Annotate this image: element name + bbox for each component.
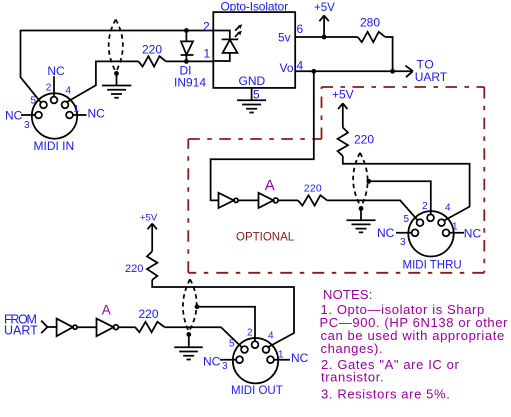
- svg-text:+5V: +5V: [314, 2, 335, 14]
- svg-text:220: 220: [139, 307, 159, 321]
- svg-text:5: 5: [253, 88, 260, 102]
- svg-text:NC: NC: [291, 351, 309, 365]
- svg-text:3. Resistors are 5%.: 3. Resistors are 5%.: [321, 386, 450, 401]
- svg-text:Opto-Isolator: Opto-Isolator: [221, 0, 289, 14]
- svg-text:5v: 5v: [278, 31, 291, 45]
- svg-text:5: 5: [229, 339, 235, 350]
- svg-text:2: 2: [46, 82, 52, 93]
- svg-text:OPTIONAL: OPTIONAL: [236, 232, 295, 244]
- svg-text:1: 1: [204, 47, 211, 61]
- svg-text:280: 280: [360, 16, 380, 30]
- svg-text:changes).: changes).: [321, 341, 384, 356]
- svg-text:Vo: Vo: [280, 61, 294, 75]
- svg-text:3: 3: [222, 361, 228, 372]
- svg-text:NC: NC: [203, 355, 221, 369]
- svg-text:3: 3: [400, 237, 406, 248]
- svg-text:220: 220: [304, 183, 322, 195]
- svg-text:+5V: +5V: [140, 213, 158, 224]
- svg-text:3: 3: [24, 120, 30, 131]
- svg-text:UART: UART: [415, 70, 448, 84]
- svg-text:NC: NC: [377, 226, 395, 240]
- svg-text:+5V: +5V: [332, 88, 354, 102]
- svg-text:4: 4: [268, 331, 274, 342]
- svg-text:220: 220: [354, 132, 374, 146]
- svg-text:220: 220: [142, 43, 162, 57]
- svg-text:220: 220: [125, 263, 143, 275]
- svg-text:NOTES:: NOTES:: [323, 287, 373, 302]
- svg-text:4: 4: [297, 59, 304, 73]
- svg-text:1: 1: [74, 104, 80, 115]
- svg-text:NC: NC: [88, 107, 106, 121]
- svg-text:4: 4: [445, 203, 451, 214]
- svg-text:NC: NC: [464, 226, 482, 240]
- svg-text:5: 5: [31, 95, 37, 106]
- svg-text:NC: NC: [5, 109, 23, 123]
- svg-text:MIDI THRU: MIDI THRU: [403, 260, 462, 272]
- svg-text:MIDI IN: MIDI IN: [34, 139, 75, 153]
- svg-text:4: 4: [66, 86, 72, 97]
- svg-text:5: 5: [404, 214, 410, 225]
- svg-text:1: 1: [278, 350, 284, 361]
- svg-text:2: 2: [247, 328, 253, 339]
- svg-text:GND: GND: [239, 74, 266, 88]
- svg-text:2: 2: [422, 201, 428, 212]
- svg-text:2: 2: [203, 20, 210, 34]
- svg-text:6: 6: [297, 22, 304, 36]
- svg-text:IN914: IN914: [174, 76, 206, 90]
- svg-text:MIDI OUT: MIDI OUT: [231, 385, 283, 397]
- svg-text:UART: UART: [4, 323, 38, 337]
- svg-text:transistor.: transistor.: [321, 369, 384, 384]
- svg-text:A: A: [102, 302, 111, 317]
- svg-text:NC: NC: [47, 64, 65, 78]
- svg-text:1: 1: [452, 222, 458, 233]
- svg-text:A: A: [265, 177, 275, 194]
